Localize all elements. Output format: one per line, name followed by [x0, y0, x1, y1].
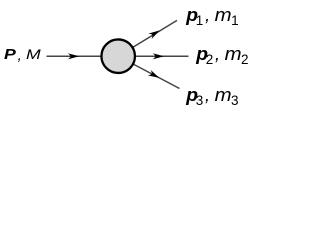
arrowhead p3: [148, 70, 161, 81]
incoming arrowhead: [68, 53, 79, 59]
label p1, m1: [184, 6, 239, 26]
incoming wire P: [47, 55, 101, 57]
arrowhead p2: [153, 53, 164, 59]
blob (decay vertex): [101, 39, 135, 72]
outgoing wire p2: [118, 55, 188, 57]
label p2, m2: [194, 45, 249, 65]
arrowhead p1: [148, 28, 161, 39]
label P, M: [4, 47, 18, 62]
outgoing wire p3: [118, 56, 179, 88]
label p3, m3: [184, 86, 239, 106]
outgoing wire p1: [118, 20, 177, 56]
